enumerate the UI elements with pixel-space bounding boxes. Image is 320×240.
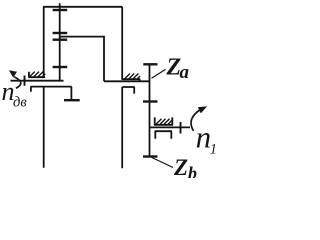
shaft end tick [24, 76, 26, 86]
planet gear bar [64, 99, 80, 101]
shaft B vertical [149, 64, 151, 156]
svg-text:дв: дв [13, 95, 27, 111]
gear Z4 on shaft A [53, 66, 68, 68]
wire right frame vertical upper [121, 7, 123, 79]
gear Za bar shaft B top [143, 63, 157, 65]
wire left frame vertical upper [43, 7, 45, 77]
wire top belt line [43, 6, 122, 8]
svg-text:a: a [180, 62, 190, 83]
svg-text:b: b [188, 163, 197, 178]
mid bearing line right [122, 79, 141, 81]
planet carrier arm left [70, 87, 72, 100]
wire right frame vertical lower [121, 87, 123, 168]
bearing support line left [28, 72, 45, 77]
hatching mid bearing [125, 74, 140, 79]
motor input shaft [11, 80, 64, 82]
bearing lower bracket right [155, 131, 172, 139]
svg-text:1: 1 [210, 141, 217, 157]
leader line Za [152, 69, 166, 78]
svg-text:n: n [196, 120, 212, 155]
hatching left bearing [30, 72, 46, 77]
rotation arrow n_dv [9, 70, 21, 88]
bearing lower bracket left [30, 87, 71, 92]
gear Z3 on shaft A [53, 39, 68, 41]
wire carrier to shaft B [104, 80, 149, 82]
carrier bracket right [122, 87, 135, 94]
svg-text:Z: Z [173, 155, 188, 178]
bearing upper box right [154, 117, 173, 124]
output shaft end tick [180, 122, 182, 134]
gear bar shaft B middle [143, 100, 158, 102]
gear Zb bar shaft B bottom [143, 155, 158, 157]
leader line Zb [152, 158, 173, 168]
hatching right bearing [156, 119, 173, 125]
wire left frame vertical lower [43, 87, 45, 168]
gear Z2 on shaft A [53, 32, 68, 34]
gear Z1 on shaft A top [53, 9, 68, 11]
rotation arrow n_1 [191, 106, 207, 131]
output shaft [150, 126, 191, 128]
wire middle link [60, 37, 104, 82]
shaft A vertical [59, 3, 61, 81]
